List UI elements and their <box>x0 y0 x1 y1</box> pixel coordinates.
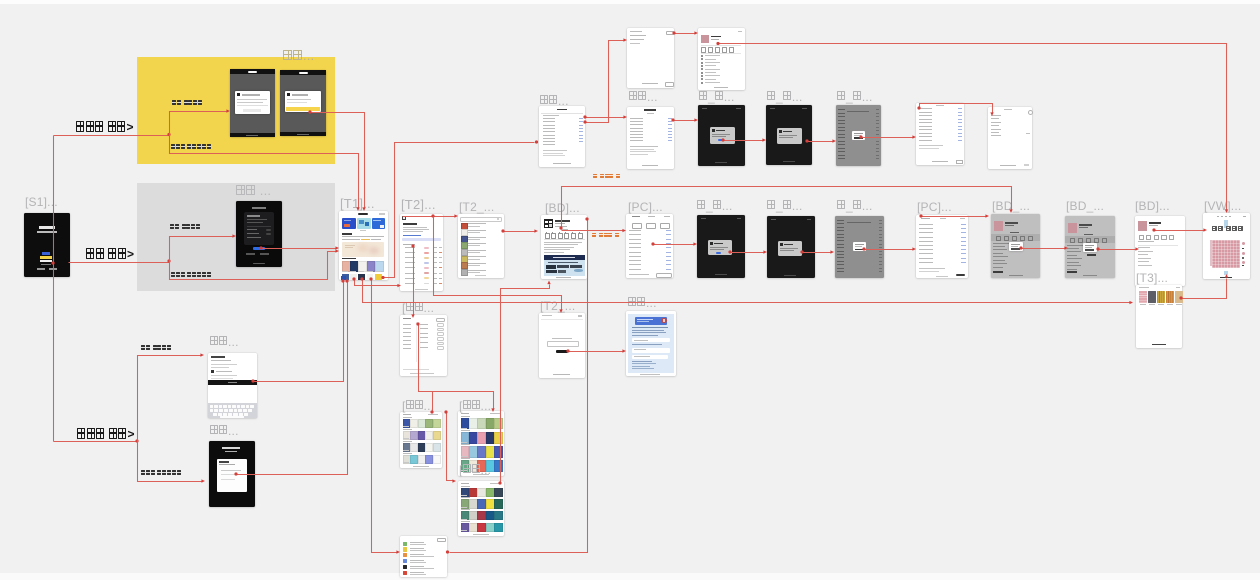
screen settings list screen WB1 <box>916 103 964 165</box>
screen chip install screen C2 <box>767 216 815 278</box>
junction dot S1 button <box>51 261 54 264</box>
label PC frame name <box>628 201 663 213</box>
screen chip list screen row-A <box>698 28 745 90</box>
junction dot apple junction <box>167 259 170 262</box>
text email login text <box>141 470 181 482</box>
wire K branch to K2 <box>432 392 434 411</box>
text apple signup text <box>170 224 201 236</box>
junction dot chip B2 card <box>805 139 808 142</box>
arrowhead into DS left <box>622 349 626 352</box>
junction dot T1 out 1 <box>352 277 355 280</box>
arrowhead into kakao screen1 <box>226 109 230 112</box>
arrowhead into WB1 left <box>912 135 916 138</box>
wire email2 out <box>237 283 348 475</box>
arrowhead into chip C3 <box>830 250 834 253</box>
junction dot chip A out <box>716 42 719 45</box>
arrowhead into BD3 left <box>1135 247 1139 250</box>
arrowhead into T2_ left <box>454 214 458 217</box>
wire BD up across to BD_1 <box>562 187 1012 229</box>
wire chip B2 to B3 <box>808 141 834 143</box>
wire T2 top down to TS <box>434 217 562 310</box>
wire chip B1 to B2 <box>724 140 764 142</box>
wire TS to DS <box>569 351 624 353</box>
wire T1 to MYA <box>384 143 535 278</box>
wire K1 inner down <box>419 325 494 409</box>
screen chip install screen B1 <box>698 105 745 166</box>
wire chip C3 to PC2 <box>865 249 914 251</box>
wire email signup <box>138 356 202 442</box>
junction dot BD_1 popup <box>1019 246 1022 249</box>
label S1 frame name <box>25 196 58 208</box>
wire T2_ to BD <box>504 231 536 233</box>
screen email signup screen <box>208 353 257 418</box>
arrowhead into K1 top <box>411 314 414 318</box>
arrowhead into BD_2 <box>1064 246 1068 249</box>
arrowhead into T3 left <box>1129 301 1133 304</box>
wire apple branch <box>69 262 170 264</box>
arrowhead into email screen1 <box>200 353 204 356</box>
wire email login <box>138 442 203 482</box>
wire T2 top to T2_ <box>403 216 456 218</box>
wire chip C1 to C2 <box>731 252 765 254</box>
junction dot MYA out up <box>583 115 586 118</box>
label chip C1 frame name <box>697 200 732 212</box>
label K3 frame name <box>459 400 491 412</box>
junction dot T2 row <box>411 244 414 247</box>
junction dot T1 out 2 <box>360 277 363 280</box>
arrowhead into TS top <box>559 309 562 313</box>
wire kakao branch <box>54 135 170 137</box>
junction dot T1 out 4 <box>381 276 384 279</box>
junction dot kakao screen2 button <box>308 110 311 113</box>
junction dot chip B3 popup <box>859 135 862 138</box>
screen T1 home screen <box>339 211 388 280</box>
screen chip install screen C1 <box>697 215 745 278</box>
screen email login screen <box>209 441 255 507</box>
junction dot T3 chip out <box>1179 296 1182 299</box>
arrowhead into T2 bottom-left <box>397 284 401 287</box>
label T2_ frame name <box>459 201 494 213</box>
junction dot T2_ row out <box>501 229 504 232</box>
label apple frame name <box>236 185 271 197</box>
label CB3 frame name <box>837 91 872 103</box>
text team create condition text <box>593 174 621 186</box>
wire email1 out <box>254 283 344 382</box>
arrowhead into T1 left from apple login <box>335 249 339 252</box>
text email signup text <box>141 345 172 357</box>
wire MYA to MY1 top <box>586 41 625 123</box>
arrowhead into PC left <box>622 229 626 232</box>
label chip C2 frame name <box>767 200 802 212</box>
wire S1 trunk vertical <box>53 136 55 442</box>
group box kakao (yellow) <box>137 57 335 164</box>
arrowhead into T1 left from apple screen <box>335 246 339 249</box>
arrowhead into VW bottom <box>1225 274 1228 278</box>
wire chip A long to VW top <box>719 44 1227 210</box>
screen category book grid K3 <box>458 411 504 476</box>
wire T2 to K1 <box>413 247 415 315</box>
label BD_1 frame name <box>992 200 1030 212</box>
junction dot BD3 cover <box>1152 228 1155 231</box>
screen PC settings screen 2 <box>916 215 968 278</box>
junction dot apple screen button <box>259 246 262 249</box>
arrowhead into K3 top <box>491 408 494 412</box>
wire email branch <box>54 441 138 443</box>
screen BD book detail screen <box>541 215 587 279</box>
arrowhead into chipA left <box>694 31 698 34</box>
label K4 frame name <box>459 464 491 476</box>
junction dot T1 out 3 <box>369 277 372 280</box>
wire chip C2 to C3 <box>803 252 832 254</box>
junction dot BD top element <box>559 226 562 229</box>
screen BD book detail screen 3 <box>1135 216 1185 286</box>
label DS frame name <box>628 297 657 309</box>
arrowhead into T1 top from kakao screen2 <box>362 207 365 211</box>
label TS frame name <box>540 300 575 312</box>
junction dot LS right edge <box>446 550 449 553</box>
wire BD right long down to LS <box>450 220 588 553</box>
wire BD3 to VW <box>1155 230 1204 232</box>
label CB1 frame name <box>699 91 734 103</box>
label VW frame name <box>1204 200 1241 212</box>
screen apple login screen <box>236 201 282 267</box>
arrowhead into BD bottom <box>547 281 550 285</box>
screen category book grid K2 <box>400 412 442 468</box>
label BD_2 frame name <box>1066 200 1104 212</box>
screen kakao login screen 2 <box>280 70 326 136</box>
text apple account label <box>86 248 134 260</box>
screen kakao signup screen 1 <box>230 69 275 137</box>
wire kakao screen2 out <box>311 113 365 209</box>
screen VW writing viewer screen <box>1203 213 1250 279</box>
VW title text <box>1212 226 1244 238</box>
junction dot K2 top <box>430 410 433 413</box>
wire PC to chip C1 <box>654 244 695 246</box>
arrowhead into apple screen <box>232 234 236 237</box>
junction dot K2 top right <box>444 410 447 413</box>
junction dot into MYA left <box>535 140 538 143</box>
label T1 frame name <box>340 198 375 210</box>
junction dot chip C1 blue chip <box>728 250 731 253</box>
wire BD_2 to BD3 <box>1099 249 1136 251</box>
label BD frame name <box>545 202 580 214</box>
wire kakao login <box>170 135 359 209</box>
arrowhead into chip C1 <box>693 242 697 245</box>
junction dot MYA out low <box>583 120 586 123</box>
label K2 frame name <box>402 400 434 412</box>
wire chip B3 to WB1 <box>862 137 914 139</box>
arrowhead into chip B3 <box>832 139 836 142</box>
top white strip <box>0 0 1260 4</box>
screen category settings screen K1 <box>400 315 447 376</box>
wire BD_1 to BD_2 <box>1022 248 1065 250</box>
screen chip install screen B2 <box>766 105 812 165</box>
wire apple screen out <box>262 248 337 250</box>
screen T3 keyboard chips screen <box>1136 285 1182 348</box>
junction dot email junction <box>135 439 138 442</box>
screen document info screen DS <box>626 311 676 376</box>
wire K4 to BD bottom <box>501 285 550 484</box>
junction dot BD_2 popup <box>1096 247 1099 250</box>
label EM2 frame name <box>210 425 239 437</box>
arrowhead into email screen2 <box>201 479 205 482</box>
arrowhead into PC2 left <box>912 247 916 250</box>
wire T1 to T3 long <box>363 280 1131 303</box>
junction dot WB1 top left <box>917 106 920 109</box>
arrowhead into VW top <box>1225 209 1228 213</box>
arrowhead into chip C2 <box>763 250 767 253</box>
wire WB1 to WB2 <box>920 104 993 113</box>
arrowhead into BD left <box>534 229 538 232</box>
wire MYA to MY2 <box>586 117 625 119</box>
screen MY account screen row-B <box>627 107 674 169</box>
arrowhead into K4 left <box>452 479 456 482</box>
text kakao signup text <box>172 100 203 112</box>
screen bottom list screen LS <box>400 536 447 577</box>
wire PC2 to BD_1 <box>922 216 987 218</box>
junction dot BD top right <box>585 217 588 220</box>
arrowhead into BD_1 top <box>1009 209 1012 213</box>
screen MY list screen row-A <box>627 28 674 88</box>
wire apple signup <box>170 237 234 262</box>
junction dot PC2 top left <box>919 214 922 217</box>
junction dot chip B1 chip <box>721 138 724 141</box>
text email account label <box>77 428 135 440</box>
group box apple (gray) <box>137 183 335 291</box>
wire MY1 to chipA <box>675 33 696 35</box>
arrowhead into chip B1 <box>694 118 698 121</box>
junction dot K4 top right <box>498 481 501 484</box>
junction dot email1 button <box>251 379 254 382</box>
label EM1 frame name <box>210 336 239 348</box>
wire T1 to T2 bottom <box>355 280 399 286</box>
label chip C3 frame name <box>837 200 872 212</box>
screen settings list screen WB2 <box>988 107 1032 169</box>
label CB2 frame name <box>767 91 802 103</box>
arrowhead into T1 top from kakao login <box>356 207 359 211</box>
label BD3 frame name <box>1135 200 1170 212</box>
junction dot MY1 out <box>672 31 675 34</box>
junction dot chip C2 card <box>800 250 803 253</box>
wire BD to PC <box>562 230 624 232</box>
label T2 frame name <box>401 199 436 211</box>
junction dot kakao junction <box>167 133 170 136</box>
arrowhead into MY1 left <box>623 38 627 41</box>
junction dot T1 bottom in B <box>345 279 348 282</box>
wire T1 to list screen <box>372 280 398 553</box>
junction dot MY2 out <box>671 118 674 121</box>
label MY2 frame name <box>629 91 658 103</box>
arrowhead into chip B2 <box>762 138 766 141</box>
label T3 frame name <box>1136 272 1168 284</box>
arrowhead into VW left <box>1203 228 1207 231</box>
label K1 frame name <box>402 302 434 314</box>
bottom white strip <box>0 573 1260 580</box>
junction dot PC row <box>651 242 654 245</box>
screen PC settings screen <box>626 214 673 278</box>
text team attach condition text <box>592 233 620 245</box>
screen BD gray overlay screen 2 <box>1065 216 1115 278</box>
arrowhead into LS left <box>396 550 400 553</box>
arrowhead into BD_1 left top <box>985 214 989 217</box>
arrowhead into WB2 top <box>990 112 993 116</box>
screen MY account screen A <box>539 106 585 167</box>
wire apple login <box>170 252 337 280</box>
junction dot TS button <box>566 349 569 352</box>
screen T2 empty search screen TS <box>539 313 585 378</box>
junction dot T2 top junction <box>431 214 434 217</box>
label MYA frame name <box>540 95 569 107</box>
screen S1 splash <box>24 213 70 277</box>
junction dot chip C3 popup <box>862 247 865 250</box>
arrowhead into MY2 left <box>623 115 627 118</box>
label kakao frame name <box>283 50 314 62</box>
screen chip permission screen C3 <box>835 216 884 278</box>
text kakao login text <box>171 144 211 156</box>
screen T2_ search results screen <box>458 214 504 278</box>
screen chip permission screen B3 <box>836 105 881 166</box>
text kakao account label <box>76 121 134 133</box>
text apple login text <box>171 272 211 284</box>
label PC2 frame name <box>917 201 952 213</box>
junction dot email2 button <box>234 472 237 475</box>
screen category book grid K4 <box>458 481 504 536</box>
wire kakao signup <box>170 112 228 135</box>
wire K2 to K4 <box>447 413 453 481</box>
screen BD gray overlay screen 1 <box>991 214 1040 278</box>
screen T2 list screen <box>400 214 443 291</box>
junction dot K1 row <box>416 322 419 325</box>
junction dot T1 bottom in A <box>341 279 344 282</box>
wire T3 to VW bottom <box>1182 279 1227 299</box>
wire MY2 to chip B1 <box>674 120 696 122</box>
